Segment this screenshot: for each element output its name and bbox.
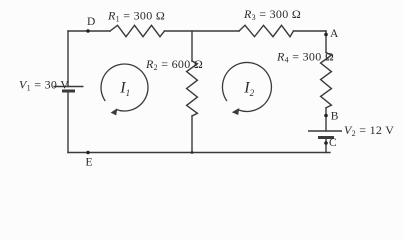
- battery V1 short plate: [62, 90, 75, 93]
- battery V1 long plate: [54, 86, 84, 88]
- loop current I2 arc: [222, 62, 271, 115]
- node D junction dot: [86, 29, 90, 33]
- wire left vertical bottom: [67, 91, 69, 153]
- wire R4 to battery V2: [325, 108, 327, 131]
- svg-text:B: B: [331, 110, 339, 122]
- wire right vertical top from A: [325, 31, 327, 53]
- svg-text:E: E: [86, 157, 93, 169]
- wire R3 to corner A: [294, 30, 327, 32]
- battery V2 short plate: [318, 136, 334, 139]
- wire battery V2 to bottom corner C: [325, 138, 327, 153]
- battery V2 long plate: [308, 130, 342, 132]
- resistor R4 = 300 ohm (right vertical): [321, 53, 332, 108]
- wire top left segment D to R1: [68, 30, 110, 32]
- svg-text:C: C: [329, 137, 337, 149]
- wire left vertical top: [67, 31, 69, 87]
- wire bottom: [68, 152, 330, 154]
- node C junction dot: [324, 141, 328, 145]
- resistor R3 = 300 ohm (top right): [239, 25, 294, 36]
- svg-text:D: D: [87, 16, 95, 28]
- node E junction dot: [86, 151, 90, 155]
- svg-text:V2 = 12 V: V2 = 12 V: [344, 123, 394, 138]
- junction dot middle branch / bottom wire: [191, 151, 194, 154]
- wire R1 to R3 through top middle node: [165, 30, 240, 32]
- node A junction dot: [324, 33, 328, 37]
- svg-text:V1 = 30 V: V1 = 30 V: [19, 78, 69, 93]
- wire middle vertical top: [191, 31, 193, 61]
- resistor R1 = 300 ohm (top left): [110, 25, 165, 36]
- loop current I1 arc: [101, 64, 148, 115]
- resistor R2 = 600 ohm (middle vertical): [187, 61, 198, 116]
- wire middle vertical bottom: [191, 116, 193, 153]
- svg-text:A: A: [330, 28, 339, 40]
- node B junction dot: [324, 114, 328, 118]
